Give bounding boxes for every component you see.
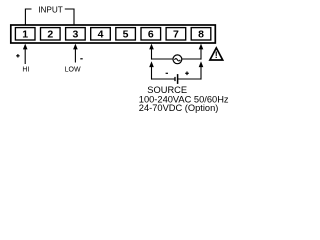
svg-text:3: 3: [72, 28, 78, 40]
svg-text:4: 4: [98, 28, 104, 40]
svg-text:5: 5: [123, 28, 129, 40]
svg-text:24-70VDC (Option): 24-70VDC (Option): [139, 103, 219, 113]
svg-text:2: 2: [47, 28, 53, 40]
wire LOW input to terminal 3: [73, 44, 78, 63]
wire battery negative to terminal 6: [149, 61, 175, 79]
minus label: [80, 58, 82, 60]
terminal 2: [41, 28, 61, 41]
svg-text:8: 8: [198, 28, 204, 40]
svg-text:INPUT: INPUT: [38, 6, 63, 15]
battery symbol: [175, 74, 178, 84]
terminal 8: [191, 28, 211, 41]
svg-text:HI: HI: [22, 67, 29, 74]
wire HI input to terminal 1: [23, 44, 28, 64]
terminal 4: [91, 28, 111, 41]
svg-text:LOW: LOW: [65, 67, 81, 74]
terminal 5: [116, 28, 136, 41]
terminal 7: [166, 28, 186, 41]
terminal 6: [141, 28, 161, 41]
terminal 3: [66, 28, 86, 41]
INPUT bracket right wire: [65, 9, 74, 25]
svg-text:!: !: [215, 50, 218, 60]
svg-text:1: 1: [22, 28, 28, 40]
battery minus label: [166, 72, 168, 74]
AC source symbol: [173, 55, 182, 64]
wire AC source to terminal 6: [149, 44, 173, 60]
wire battery positive to terminal 8: [178, 61, 204, 79]
plus label: [16, 54, 19, 57]
wire AC source to terminal 8: [182, 44, 203, 60]
battery plus label: [185, 72, 189, 76]
terminal block TB1 outer body: [11, 25, 216, 43]
svg-text:6: 6: [148, 28, 154, 40]
INPUT bracket left wire: [25, 9, 31, 25]
svg-text:7: 7: [173, 28, 179, 40]
warning triangle: [210, 48, 223, 60]
terminal 1: [15, 28, 35, 41]
